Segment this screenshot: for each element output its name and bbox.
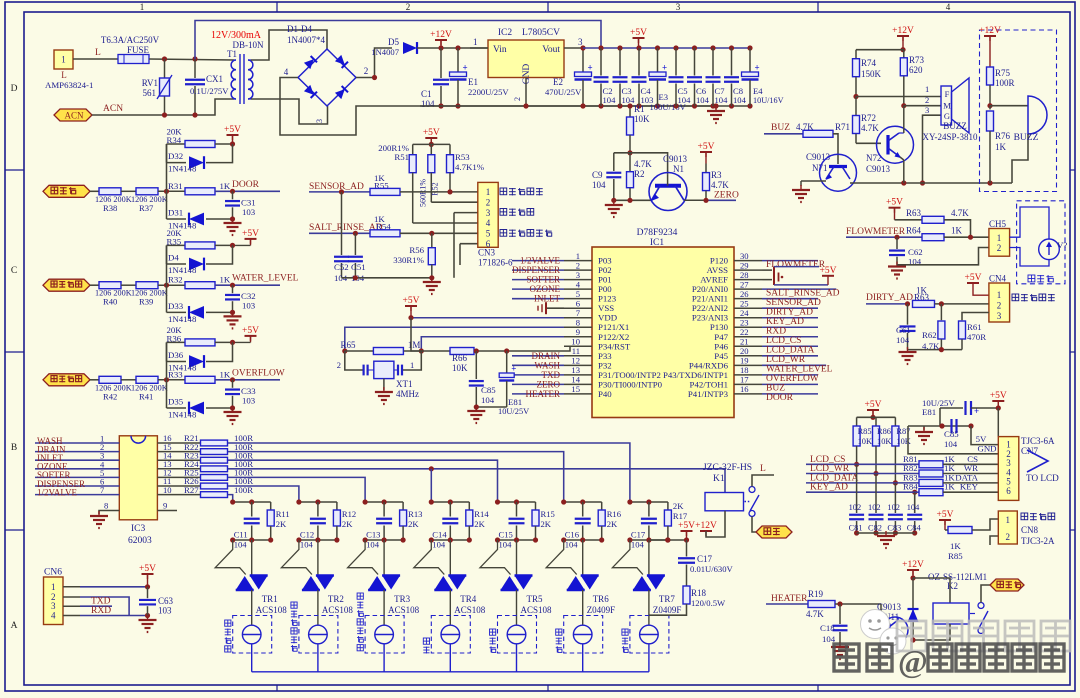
svg-text:1N4148: 1N4148: [168, 363, 197, 373]
svg-text:E3: E3: [659, 92, 669, 102]
svg-text:12: 12: [571, 356, 580, 366]
svg-text:104: 104: [432, 540, 446, 550]
net SOFTER IC1 pin 3: [512, 275, 564, 285]
svg-text:CN4: CN4: [989, 274, 1007, 284]
svg-text:+5V: +5V: [937, 510, 954, 520]
svg-text:KEY_AD: KEY_AD: [810, 483, 848, 493]
svg-text:C32: C32: [241, 291, 256, 301]
triac TR1 ACS108: [215, 540, 287, 615]
ground switch block: [224, 218, 242, 235]
svg-text:5V: 5V: [976, 434, 987, 444]
svg-text:C9013: C9013: [806, 152, 831, 162]
capacitor E81 10U/25V lcd: [922, 398, 1001, 426]
load box channel 7: [622, 590, 669, 672]
svg-text:2K: 2K: [408, 519, 419, 529]
svg-text:R34: R34: [167, 135, 182, 145]
svg-text:ACS108: ACS108: [388, 605, 420, 615]
ground flowmeter: [888, 262, 906, 279]
svg-text:C1: C1: [421, 89, 432, 99]
resistor R86 10K: [873, 417, 892, 476]
svg-text:IC2: IC2: [498, 28, 513, 38]
ground divider: [605, 200, 623, 217]
svg-text:IC3: IC3: [131, 524, 146, 534]
connector L AMP63824-1: [45, 50, 93, 90]
svg-text:24: 24: [740, 308, 749, 318]
resistor R34 20K pull-up: [167, 127, 233, 192]
svg-text:+5V: +5V: [242, 229, 259, 239]
svg-text:ACS108: ACS108: [322, 605, 354, 615]
diode D4 1N4148: [167, 245, 233, 275]
capacitor CX1 0.1U/275V: [185, 59, 229, 115]
net DRAIN IC1 pin 11: [512, 351, 564, 361]
svg-text:AVSS: AVSS: [707, 265, 728, 275]
snubber capacitor C16 104: [561, 499, 602, 549]
capacitor C51 104: [334, 233, 366, 283]
capacitor C82 102: [868, 474, 884, 536]
capacitor C81 102: [849, 464, 865, 535]
ground sensor: [423, 277, 441, 294]
wire snubber bottom bar: [363, 537, 406, 542]
svg-text:3: 3: [576, 270, 580, 280]
svg-text:+5V: +5V: [403, 296, 420, 306]
svg-text:28: 28: [740, 270, 749, 280]
svg-text:1: 1: [486, 187, 491, 197]
svg-text:330R1%: 330R1%: [393, 255, 424, 265]
svg-text:WATER_LEVEL: WATER_LEVEL: [766, 365, 833, 375]
svg-text:C11: C11: [234, 530, 248, 540]
wire L to fuse: [73, 48, 118, 59]
svg-text:R85: R85: [948, 551, 963, 561]
+12V power port: [430, 30, 452, 48]
+5V power port snubber K1: [650, 521, 695, 543]
svg-text:C9013: C9013: [663, 154, 688, 164]
wire sensor pull-up rail: [413, 143, 450, 145]
svg-text:27: 27: [740, 279, 749, 289]
wire snubber bottom bar: [495, 537, 538, 542]
wire pullup rail: [857, 416, 896, 418]
net KEY_AD IC1 pin 24: [762, 317, 818, 327]
svg-text:1: 1: [61, 55, 66, 65]
svg-text:P23/ANI3: P23/ANI3: [692, 313, 729, 323]
speaker BUZZ right: [990, 96, 1047, 183]
svg-text:3: 3: [997, 311, 1002, 321]
svg-text:DIRTY_AD: DIRTY_AD: [866, 293, 913, 303]
svg-text:104: 104: [631, 540, 645, 550]
svg-text:C14: C14: [432, 530, 447, 540]
svg-text:SOFTER: SOFTER: [526, 275, 560, 285]
svg-text:ACN: ACN: [103, 104, 123, 114]
load box channel 4: [423, 590, 470, 672]
net DIRTY_AD IC1 pin 25: [762, 307, 818, 317]
svg-text:1: 1: [410, 360, 414, 370]
svg-text:R16: R16: [607, 509, 622, 519]
svg-text:TR5: TR5: [527, 594, 544, 604]
svg-text:+: +: [463, 63, 468, 73]
svg-text:P43/TXD6/INTP1: P43/TXD6/INTP1: [663, 370, 728, 380]
diode D32 1N4148: [167, 144, 233, 174]
svg-text:0.1U/275V: 0.1U/275V: [190, 86, 229, 96]
svg-text:R63: R63: [906, 208, 922, 218]
svg-text:104: 104: [499, 540, 513, 550]
wire IC3 output row 5: [228, 477, 365, 502]
triac TR6 Z0409F: [546, 540, 615, 615]
svg-text:10K: 10K: [452, 363, 468, 373]
svg-text:C85: C85: [481, 385, 496, 395]
resistor R41 1206 200K: [131, 376, 185, 401]
svg-text:HEATER: HEATER: [771, 594, 808, 604]
label dirty sensor: [1012, 294, 1055, 301]
svg-text:+12V: +12V: [902, 560, 924, 570]
net DOOR IC1 pin 16: [762, 393, 818, 403]
net INLET IC1 pin 5: [512, 294, 564, 304]
net INLET IC3 pin 3: [35, 451, 119, 463]
svg-text:FUSE: FUSE: [127, 45, 150, 55]
svg-text:G: G: [944, 111, 950, 121]
svg-text:5: 5: [486, 229, 491, 239]
svg-text:9: 9: [163, 501, 167, 511]
capacitor C2 104: [594, 45, 617, 108]
svg-text:XY-24SP-3810: XY-24SP-3810: [922, 132, 978, 142]
svg-text:D4: D4: [168, 253, 179, 263]
svg-text:R62: R62: [922, 330, 937, 340]
load box channel 1: [225, 590, 272, 672]
svg-text:+5V: +5V: [820, 266, 837, 276]
svg-text:2: 2: [997, 300, 1002, 310]
svg-text:L: L: [61, 70, 67, 80]
ground CN6: [139, 615, 157, 632]
svg-text:102: 102: [887, 503, 900, 512]
net 1/2VALVE IC3 pin 7: [35, 485, 119, 497]
svg-text:1N4148: 1N4148: [168, 410, 197, 420]
svg-text:3: 3: [676, 2, 681, 12]
capacitor C61 104: [896, 304, 916, 350]
svg-text:GND: GND: [977, 444, 996, 454]
resistor R33 1K: [164, 368, 285, 383]
svg-text:ZERO: ZERO: [714, 191, 739, 201]
svg-text:104: 104: [733, 95, 747, 105]
net LCD_WR row with resistor R82 1K: [806, 463, 998, 477]
wire CN6 pin2: [63, 597, 129, 616]
capacitor C84 104: [907, 492, 923, 535]
snubber capacitor C13 104: [363, 499, 404, 549]
net DISPENSER IC1 pin 2: [512, 265, 564, 275]
svg-text:104: 104: [421, 99, 435, 109]
wire IC3 output row 1: [228, 443, 630, 502]
svg-text:C18: C18: [820, 623, 835, 633]
svg-text:16: 16: [740, 384, 749, 394]
+5V power port switch: [230, 326, 259, 345]
wire +5V rail: [583, 47, 750, 49]
svg-text:TR6: TR6: [593, 594, 610, 604]
triac TR3 ACS108: [348, 540, 420, 615]
relay K1 JZC-32F-HS: [703, 463, 759, 517]
svg-text:17: 17: [740, 375, 749, 385]
resistor R27 100R: [157, 485, 253, 498]
node junctions on L line: [162, 56, 198, 61]
wire N71 collector bus: [850, 180, 1012, 185]
svg-text:29: 29: [740, 260, 749, 270]
svg-text:2: 2: [406, 2, 411, 12]
svg-text:CH5: CH5: [989, 219, 1007, 229]
switch input flag net DOOR: [43, 185, 90, 197]
svg-text:150K: 150K: [861, 69, 882, 79]
svg-text:C15: C15: [499, 530, 513, 540]
capacitor E1 2200U/25V: [438, 48, 509, 109]
net LCD_DATA row with resistor R83 1K: [806, 472, 998, 486]
buzzer BUZZ XY-24SP-3810: [922, 78, 978, 142]
svg-text:C85: C85: [944, 429, 959, 439]
svg-text:P47: P47: [714, 332, 728, 342]
wire KEY_AD column: [912, 490, 917, 513]
wire CN7 GND pin: [908, 426, 998, 454]
svg-text:TO LCD: TO LCD: [1026, 473, 1059, 483]
svg-text:1N4148: 1N4148: [168, 314, 197, 324]
svg-text:R84: R84: [903, 482, 918, 492]
svg-text:100R: 100R: [234, 485, 253, 495]
capacitor C3 104: [613, 45, 636, 108]
svg-text:DOOR: DOOR: [766, 393, 794, 403]
wire snubber bottom bar: [627, 537, 670, 542]
svg-text:2: 2: [1006, 532, 1011, 542]
switch input flag net OVERFLOW: [43, 374, 90, 386]
wire speaker pin3: [920, 105, 941, 186]
diode K2: [907, 578, 918, 640]
svg-text:100R: 100R: [995, 78, 1015, 88]
svg-text:120/0.5W: 120/0.5W: [691, 598, 726, 608]
wire buzzer rail: [856, 49, 904, 51]
svg-text:14: 14: [571, 375, 580, 385]
resistor R51 200R1%: [378, 143, 416, 223]
svg-text:4: 4: [486, 218, 491, 228]
net RXD CN6: [63, 606, 148, 616]
svg-text:2: 2: [997, 243, 1002, 253]
svg-text:+5V: +5V: [965, 273, 982, 283]
capacitor C8 104: [724, 45, 747, 108]
svg-text:103: 103: [242, 395, 256, 405]
svg-text:HEATER: HEATER: [526, 389, 561, 399]
+5V power port flowmeter: [886, 198, 903, 220]
transformer T1 DB-10N: [211, 30, 264, 104]
+12V power port K1: [695, 511, 725, 537]
capacitor C33 103: [225, 380, 256, 411]
svg-text:4.7K: 4.7K: [806, 609, 824, 619]
svg-text:Vout: Vout: [542, 45, 560, 55]
svg-text:+12V: +12V: [979, 26, 1001, 36]
resistor R26 100R: [157, 476, 253, 489]
resistor R24 100R: [157, 459, 253, 472]
svg-text:R3: R3: [711, 170, 722, 180]
resistor R3 4.7K: [698, 142, 730, 200]
net SALT_RINSE_AD with resistor R54 1K: [309, 214, 478, 237]
resistor R65 1M: [340, 340, 423, 355]
svg-text:M: M: [943, 101, 951, 111]
watermark bubbles: [861, 610, 907, 655]
svg-text:P40: P40: [598, 389, 612, 399]
svg-text:R37: R37: [139, 203, 154, 213]
label temperature sensor: [500, 188, 543, 195]
net DIRTY_AD with resistor R63 1K: [866, 286, 989, 308]
svg-text:104: 104: [565, 540, 579, 550]
resistor R85 10K: [853, 417, 872, 467]
ground C18: [831, 642, 849, 659]
resistor R73 620: [900, 50, 924, 109]
net LCD_DATA IC1 pin 21: [762, 345, 818, 355]
transistor N11 C9013: [877, 602, 908, 643]
resistor R61 470R: [959, 313, 989, 350]
capacitor C4 103: [632, 45, 654, 108]
net ZERO IC1 pin 14: [512, 379, 564, 389]
resistor R37 1206 200K: [131, 188, 185, 213]
IC3 pin 8 ground: [90, 501, 119, 528]
wire secondary bottom to bridge pin3: [251, 99, 328, 124]
net RXD IC1 pin 23: [762, 326, 818, 336]
svg-text:R31: R31: [168, 181, 183, 191]
net WASH IC3 pin 1: [35, 434, 119, 446]
snubber resistor R13 2K: [400, 502, 423, 540]
svg-text:Z0409F: Z0409F: [587, 605, 616, 615]
svg-text:3: 3: [315, 119, 324, 123]
wire snubber bottom bar: [561, 537, 604, 542]
wire load return bus: [252, 671, 649, 673]
svg-text:R18: R18: [691, 588, 707, 598]
svg-text:+: +: [588, 63, 593, 73]
svg-text:1N4007*4: 1N4007*4: [287, 35, 325, 45]
svg-text:1K: 1K: [944, 482, 955, 492]
resistor R53 4.7K1%: [447, 144, 485, 192]
resistor R63 4.7K: [895, 208, 971, 237]
svg-text:TR1: TR1: [262, 594, 278, 604]
net SENSOR_AD IC1 pin 26: [762, 298, 821, 308]
switch input flag net WATER_LEVEL: [43, 279, 90, 291]
resistor R40 1206 200K: [90, 282, 136, 307]
svg-text:XT1: XT1: [396, 379, 413, 389]
wire CN7 5V pin: [971, 426, 998, 445]
svg-text:D5: D5: [388, 37, 399, 47]
resistor R32 1K: [164, 274, 299, 289]
svg-text:RXD: RXD: [91, 606, 111, 616]
capacitor C18 104: [820, 604, 848, 645]
wire xtal pin9: [421, 337, 564, 351]
net FLOWMETER IC1 pin 30: [762, 260, 826, 270]
svg-text:2: 2: [925, 95, 929, 105]
+5V power port CN8: [937, 510, 954, 530]
net HEATER with resistor R19 4.7K: [766, 589, 881, 619]
diode D31 1N4148: [167, 191, 233, 230]
net HEATER IC1 pin 15: [512, 389, 564, 399]
svg-text:R12: R12: [342, 509, 356, 519]
svg-text:R85: R85: [858, 427, 872, 436]
snubber capacitor C12 104: [296, 499, 337, 549]
node CN6 ground: [145, 613, 150, 618]
svg-text:3: 3: [486, 208, 491, 218]
svg-text:KEY: KEY: [960, 482, 979, 492]
diode D35 1N4148: [167, 380, 233, 420]
svg-text:R27: R27: [184, 485, 199, 495]
svg-text:P41/INTP3: P41/INTP3: [688, 389, 729, 399]
svg-text:15: 15: [571, 384, 580, 394]
wire CN8 pin2: [990, 536, 998, 545]
svg-text:2K: 2K: [276, 519, 287, 529]
snubber capacitor C17 104: [627, 499, 668, 549]
snubber resistor R16 2K: [598, 502, 622, 540]
svg-text:470R: 470R: [967, 332, 986, 342]
svg-text:2K: 2K: [474, 519, 485, 529]
svg-text:BUZ: BUZ: [766, 384, 785, 394]
svg-text:26: 26: [740, 289, 749, 299]
svg-text:1/2VALVE: 1/2VALVE: [37, 487, 78, 497]
capacitor C9 104: [592, 153, 621, 201]
svg-text:R72: R72: [861, 113, 876, 123]
snubber resistor R14 2K: [466, 502, 490, 540]
connector CH5: [989, 219, 1010, 256]
svg-text:ACN: ACN: [64, 111, 84, 121]
resistor R31 1K: [164, 180, 280, 195]
+12V power port K2: [902, 560, 924, 581]
svg-text:104: 104: [896, 335, 910, 345]
svg-text:DOOR: DOOR: [232, 180, 260, 190]
diode D36 1N4148: [167, 342, 233, 372]
svg-text:R56: R56: [409, 245, 424, 255]
ground reset: [467, 406, 485, 423]
svg-text:25: 25: [740, 299, 749, 309]
svg-text:P123: P123: [598, 294, 617, 304]
svg-text:OVERFLOW: OVERFLOW: [232, 368, 285, 378]
net OZONE IC3 pin 4: [35, 459, 119, 471]
diode D5 1N4007: [371, 37, 430, 57]
wire xtal pin8: [345, 327, 564, 351]
load box channel 2: [291, 590, 338, 672]
resistor R23 100R: [157, 450, 253, 463]
svg-text:2: 2: [337, 360, 341, 370]
svg-text:4.7K1%: 4.7K1%: [455, 162, 485, 172]
svg-text:7: 7: [100, 485, 105, 495]
ground crystal: [375, 387, 393, 404]
snubber resistor R12 2K: [333, 502, 356, 540]
svg-text:D78F9234: D78F9234: [637, 228, 678, 238]
svg-text:CX1: CX1: [206, 74, 223, 84]
svg-text:C12: C12: [300, 530, 314, 540]
svg-text:R86: R86: [877, 427, 891, 436]
svg-text:1N4007: 1N4007: [371, 47, 399, 57]
svg-text:L7805CV: L7805CV: [522, 28, 560, 38]
svg-text:P42/TOH1: P42/TOH1: [690, 379, 728, 389]
svg-text:AMP63824-1: AMP63824-1: [45, 80, 93, 90]
svg-text:104: 104: [481, 395, 495, 405]
svg-text:BUZ: BUZ: [771, 123, 790, 133]
svg-text:C31: C31: [241, 197, 256, 207]
net SENSOR_AD with resistor R55 1K: [309, 173, 478, 195]
connector CN6: [44, 568, 64, 625]
svg-text:0.01U/630V: 0.01U/630V: [690, 564, 734, 574]
svg-text:INLET: INLET: [534, 294, 560, 304]
svg-text:+: +: [662, 63, 667, 73]
capacitor C6 104: [687, 45, 710, 108]
svg-text:JZC-32F-HS: JZC-32F-HS: [703, 463, 752, 473]
svg-text:TR2: TR2: [328, 594, 344, 604]
svg-text:8: 8: [104, 501, 108, 511]
svg-text:2K: 2K: [342, 519, 353, 529]
net L relay: [752, 464, 774, 487]
net LCD_WR IC1 pin 20: [762, 355, 818, 365]
svg-text:2200U/25V: 2200U/25V: [468, 87, 509, 97]
svg-text:5: 5: [576, 289, 580, 299]
svg-text:T1: T1: [227, 49, 237, 59]
snubber resistor R15 2K: [532, 502, 555, 540]
svg-text:R13: R13: [408, 509, 422, 519]
+5V power port CN6: [139, 564, 156, 587]
resistor R1 10K: [627, 103, 651, 152]
svg-text:30: 30: [740, 251, 749, 261]
